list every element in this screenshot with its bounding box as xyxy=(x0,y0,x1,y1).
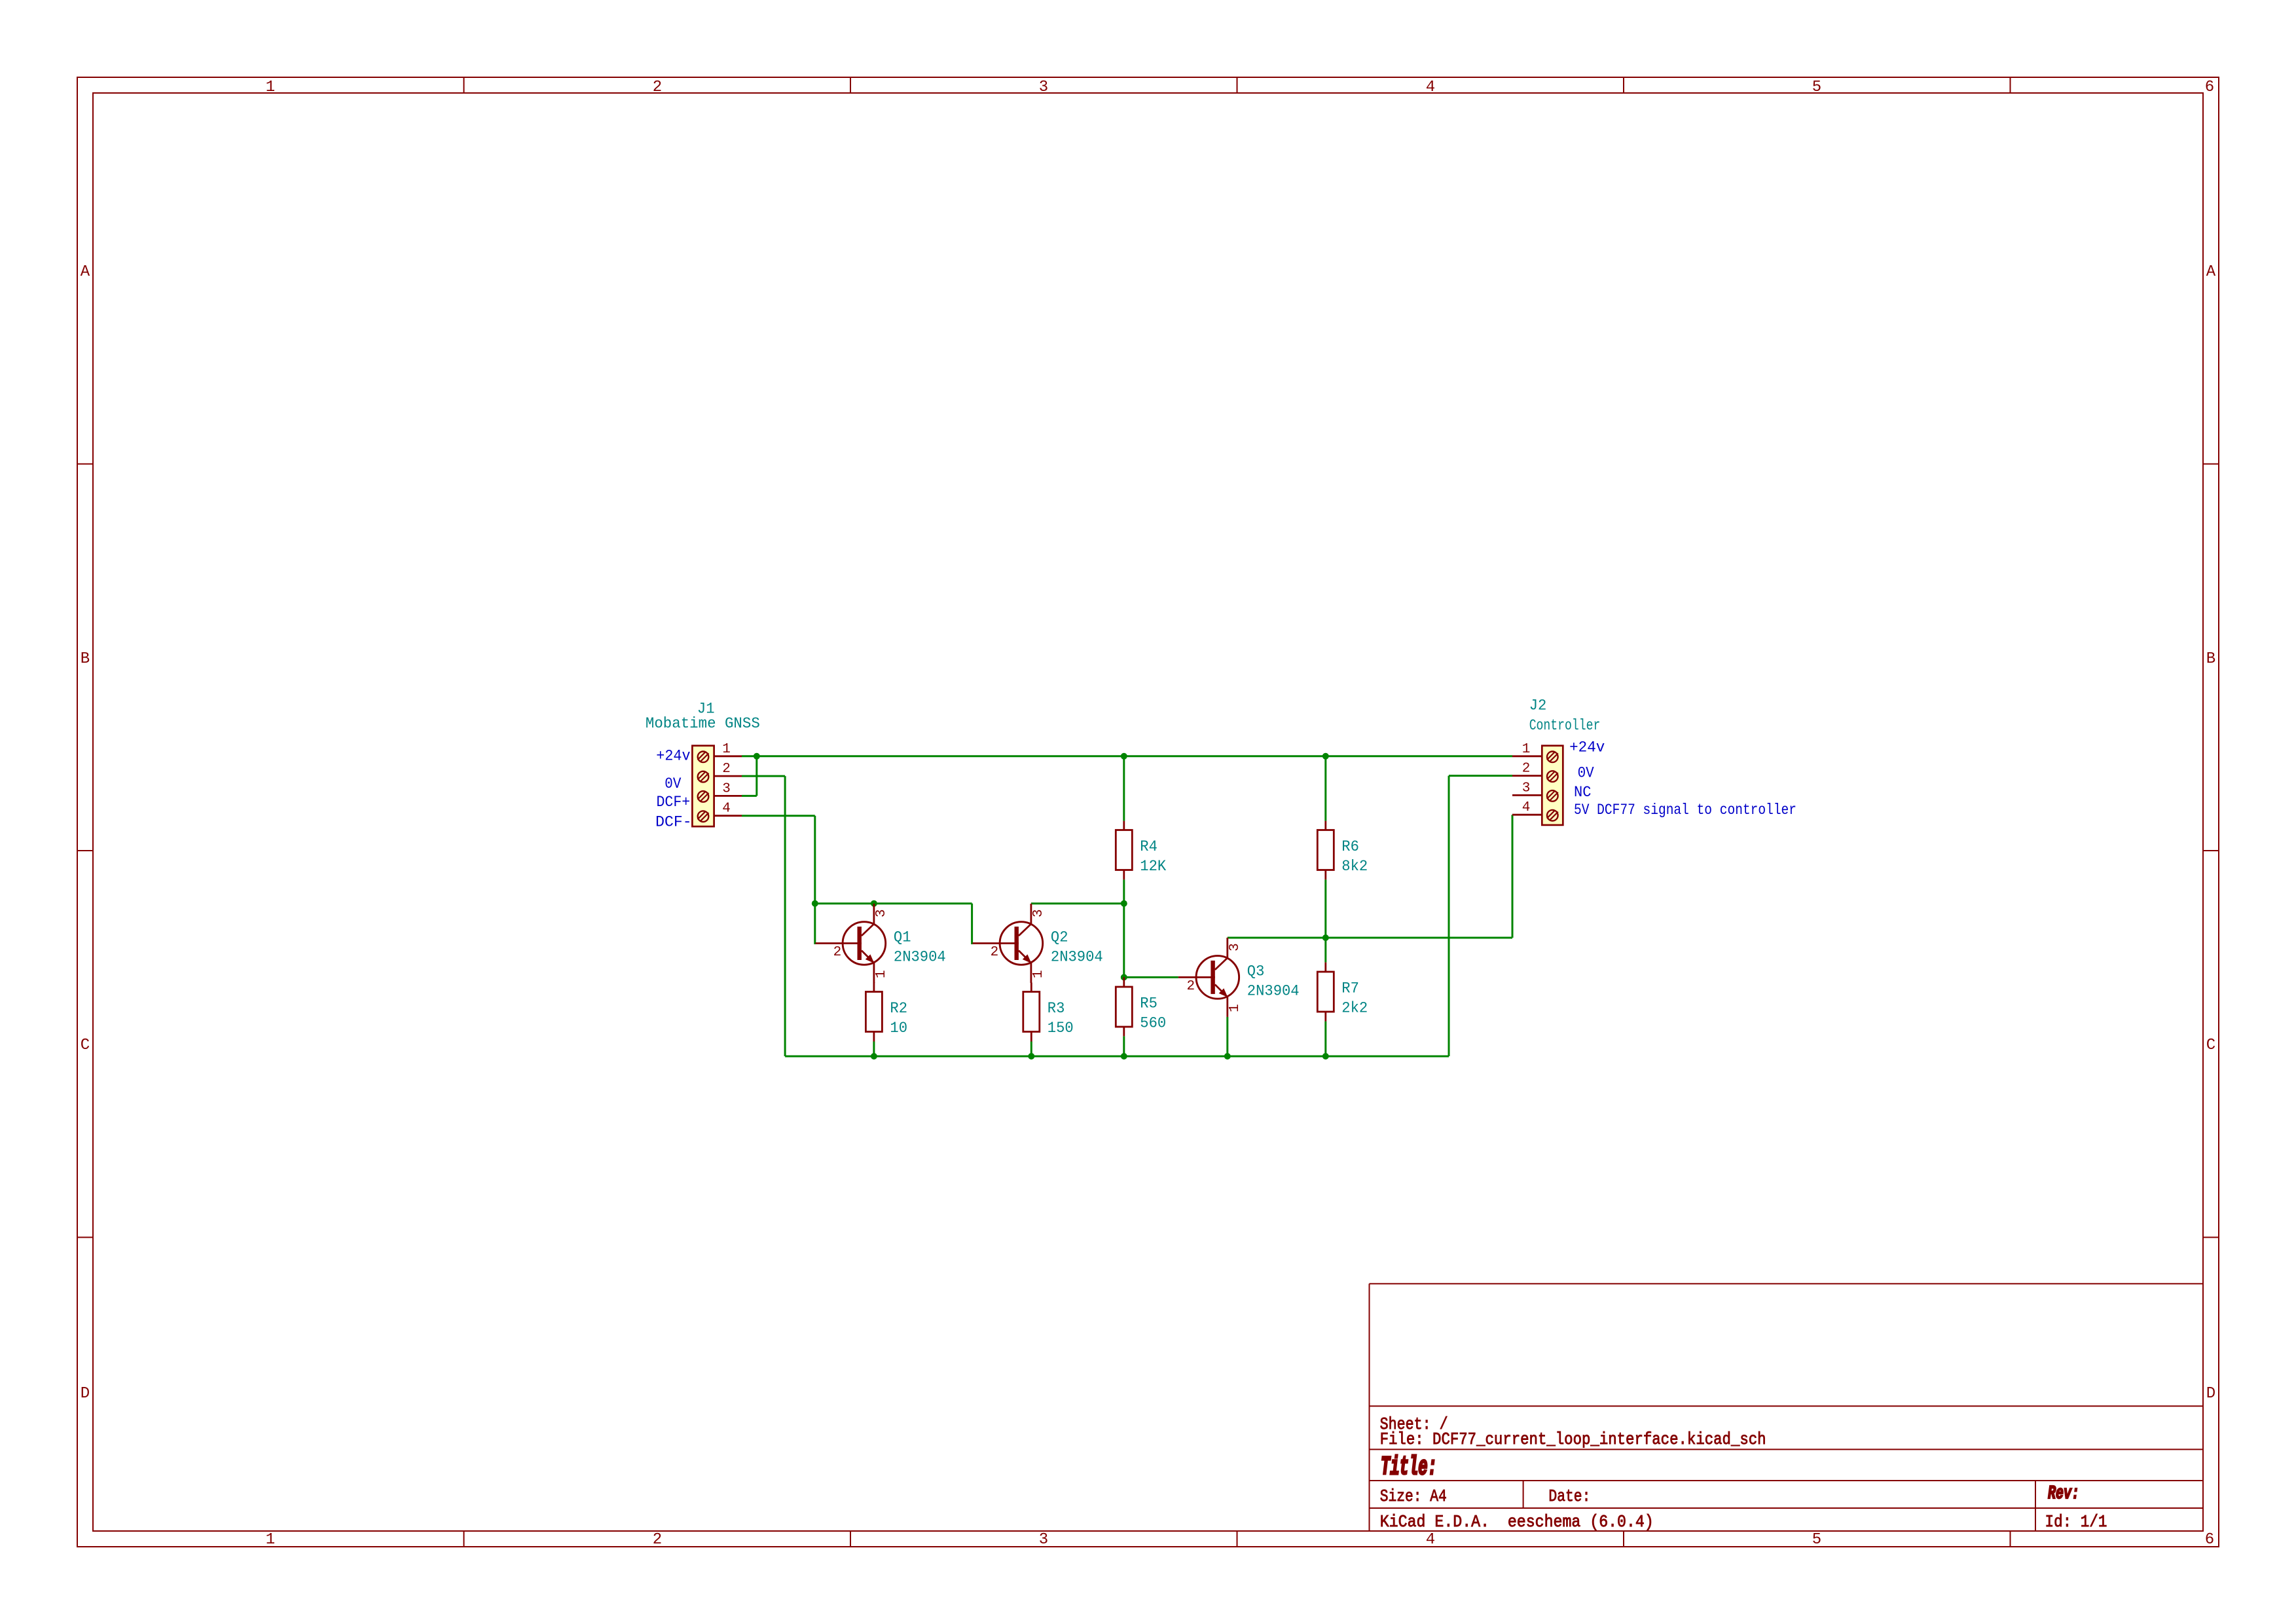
svg-text:B: B xyxy=(2206,650,2215,668)
svg-text:3: 3 xyxy=(1039,1531,1048,1549)
svg-text:+24v: +24v xyxy=(1569,739,1605,756)
svg-text:+24v: +24v xyxy=(656,748,690,765)
svg-text:1: 1 xyxy=(722,742,731,757)
svg-text:4: 4 xyxy=(722,802,731,817)
svg-text:10: 10 xyxy=(890,1020,907,1037)
svg-text:Title:: Title: xyxy=(1381,1453,1437,1483)
svg-text:5: 5 xyxy=(1812,79,1821,96)
svg-text:R6: R6 xyxy=(1341,838,1359,855)
svg-text:File: DCF77_current_loop_inter: File: DCF77_current_loop_interface.kicad… xyxy=(1380,1430,1766,1449)
svg-text:Rev:: Rev: xyxy=(2048,1483,2079,1504)
svg-text:A: A xyxy=(2206,263,2216,281)
svg-text:5: 5 xyxy=(1812,1531,1821,1549)
svg-text:1: 1 xyxy=(1031,970,1046,978)
svg-text:Size: A4: Size: A4 xyxy=(1380,1486,1447,1506)
svg-text:Q3: Q3 xyxy=(1247,963,1265,980)
svg-text:Id: 1/1: Id: 1/1 xyxy=(2045,1512,2107,1532)
svg-text:D: D xyxy=(2206,1385,2215,1403)
svg-text:2N3904: 2N3904 xyxy=(1051,949,1103,966)
svg-text:0V: 0V xyxy=(665,775,681,792)
svg-text:2: 2 xyxy=(1522,762,1531,777)
svg-text:Date:: Date: xyxy=(1548,1486,1590,1506)
svg-text:4: 4 xyxy=(1426,1531,1435,1549)
svg-text:R7: R7 xyxy=(1341,980,1359,997)
svg-text:6: 6 xyxy=(2205,1531,2214,1549)
svg-text:R3: R3 xyxy=(1048,1000,1065,1017)
svg-text:150: 150 xyxy=(1048,1020,1074,1037)
svg-text:2: 2 xyxy=(1186,979,1195,994)
svg-text:3: 3 xyxy=(1039,79,1048,96)
svg-text:C: C xyxy=(81,1037,90,1054)
svg-text:2: 2 xyxy=(653,1531,662,1549)
svg-text:4: 4 xyxy=(1522,800,1531,815)
svg-text:2k2: 2k2 xyxy=(1341,1000,1368,1017)
svg-text:2: 2 xyxy=(653,79,662,96)
svg-text:A: A xyxy=(81,263,90,281)
svg-text:Q2: Q2 xyxy=(1051,929,1068,946)
svg-text:J2: J2 xyxy=(1529,697,1547,714)
svg-text:R2: R2 xyxy=(890,1000,907,1017)
svg-text:0V: 0V xyxy=(1578,765,1594,782)
svg-text:2: 2 xyxy=(833,945,842,960)
svg-text:2N3904: 2N3904 xyxy=(894,949,946,966)
svg-text:1: 1 xyxy=(266,1531,275,1549)
svg-text:DCF-: DCF- xyxy=(655,814,692,831)
svg-text:D: D xyxy=(81,1385,90,1403)
svg-text:3: 3 xyxy=(1522,781,1531,796)
svg-text:Controller: Controller xyxy=(1529,717,1601,734)
svg-text:2: 2 xyxy=(722,762,731,777)
svg-text:3: 3 xyxy=(1031,909,1046,917)
svg-text:1: 1 xyxy=(1228,1004,1243,1012)
svg-text:KiCad E.D.A. eeschema (6.0.4): KiCad E.D.A. eeschema (6.0.4) xyxy=(1380,1512,1654,1532)
svg-text:3: 3 xyxy=(1228,943,1243,951)
svg-text:R5: R5 xyxy=(1140,995,1157,1012)
svg-text:3: 3 xyxy=(874,909,889,917)
svg-text:2N3904: 2N3904 xyxy=(1247,982,1300,999)
svg-text:1: 1 xyxy=(874,970,889,978)
svg-text:4: 4 xyxy=(1426,79,1435,96)
svg-text:1: 1 xyxy=(266,79,275,96)
svg-text:B: B xyxy=(81,650,90,668)
svg-text:C: C xyxy=(2206,1037,2215,1054)
svg-text:6: 6 xyxy=(2205,79,2214,96)
svg-text:8k2: 8k2 xyxy=(1341,858,1368,875)
svg-text:3: 3 xyxy=(722,781,731,796)
svg-text:R4: R4 xyxy=(1140,838,1157,855)
svg-text:5V DCF77 signal to controller: 5V DCF77 signal to controller xyxy=(1574,802,1796,819)
svg-text:2: 2 xyxy=(991,945,999,960)
svg-text:Mobatime GNSS: Mobatime GNSS xyxy=(646,715,760,732)
svg-text:12K: 12K xyxy=(1140,858,1166,875)
svg-text:Q1: Q1 xyxy=(894,929,911,946)
svg-text:1: 1 xyxy=(1522,742,1531,757)
svg-text:DCF+: DCF+ xyxy=(657,794,691,811)
svg-text:NC: NC xyxy=(1574,784,1592,801)
svg-text:560: 560 xyxy=(1140,1015,1166,1032)
